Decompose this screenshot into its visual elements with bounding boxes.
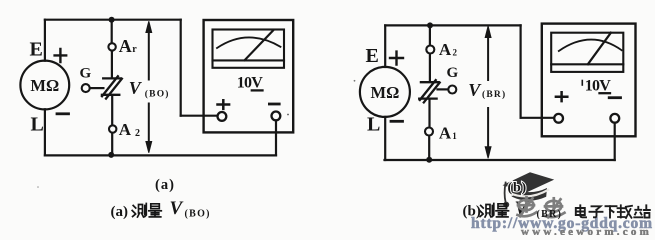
voltmeter P2 needle — [588, 33, 611, 64]
caption (b) measure V(BR) — [463, 198, 529, 220]
wire left vertical lower (L to bottom rail) — [44, 109, 46, 155]
svg-text:E: E — [30, 39, 43, 61]
svg-text:(BO): (BO) — [185, 208, 211, 219]
terminal − (voltmeter) — [272, 112, 281, 121]
svg-text:A: A — [119, 36, 132, 56]
voltmeter P2 scale face — [551, 33, 623, 72]
wire DUT branch segment 4 — [111, 134, 113, 155]
wire to voltmeter plus terminal — [181, 115, 218, 117]
svg-text:1: 1 — [452, 131, 457, 141]
svg-text:E: E — [366, 45, 379, 67]
megohmmeter M2 — [360, 67, 410, 117]
label A2 (B) — [439, 40, 458, 59]
wire from voltmeter minus terminal — [275, 120, 277, 155]
watermark bug hanzi 1 — [518, 197, 537, 216]
label − (voltmeter terminal) — [269, 103, 279, 106]
svg-text:2: 2 — [453, 47, 458, 57]
caption (a) — [155, 177, 175, 193]
caption hanzi liang (amount, b) — [496, 204, 509, 217]
terminal + (voltmeter) — [218, 112, 227, 121]
watermark site name hanzi zhan — [634, 205, 650, 217]
svg-text:r: r — [132, 44, 137, 55]
label A2 — [119, 120, 140, 139]
label E (megohmmeter terminal) — [30, 39, 43, 61]
node junction top (DUT branch) — [109, 17, 115, 23]
svg-text:(BR): (BR) — [482, 89, 506, 100]
terminal node A2 (bottom) — [109, 125, 116, 132]
wire to voltmeter plus terminal (B) — [521, 117, 555, 119]
voltmeter P1 case — [204, 20, 294, 132]
label − (voltmeter P2 terminal) — [609, 96, 620, 99]
value label 10V (P2) — [582, 77, 611, 94]
svg-text:(BR): (BR) — [537, 209, 563, 220]
value label V(BO) — [129, 78, 170, 99]
svg-text:V: V — [468, 80, 482, 100]
wire left vertical upper (B) — [384, 25, 386, 67]
voltmeter P2 case — [542, 24, 636, 137]
node junction bottom (B) — [426, 157, 432, 163]
svg-text:G: G — [80, 66, 92, 82]
label L (megohmmeter terminal) — [31, 114, 44, 136]
svg-text:10V: 10V — [237, 74, 263, 91]
voltmeter P1 scale arc — [217, 37, 281, 48]
wire DUT branch segment 2 — [111, 51, 113, 77]
svg-text:MΩ: MΩ — [371, 83, 400, 102]
value label 10V — [237, 74, 263, 91]
label A1 (B) — [439, 124, 457, 143]
wire left vertical lower (B) — [384, 117, 386, 160]
label + (voltmeter terminal) — [218, 100, 230, 109]
voltmeter P2 scale arc — [559, 40, 622, 51]
label − (megohmmeter polarity) — [57, 112, 69, 115]
wire right vertical — [180, 20, 182, 116]
label + (megohmmeter polarity) — [55, 49, 67, 62]
wire DUT branch segment 1 — [111, 20, 113, 43]
wire bottom rail — [45, 154, 276, 156]
svg-text:V: V — [129, 78, 143, 98]
svg-text:G: G — [447, 65, 459, 81]
watermark url eeworm — [521, 226, 651, 238]
svg-text:MΩ: MΩ — [30, 76, 59, 95]
svg-text:(a): (a) — [155, 177, 175, 193]
svg-text:2: 2 — [135, 128, 140, 139]
caption hanzi ce (measure) — [132, 204, 146, 218]
svg-text:A: A — [119, 120, 132, 139]
terminal node A2 (top, B) — [426, 46, 434, 54]
node junction bottom (DUT branch) — [108, 152, 114, 158]
terminal node G — [82, 84, 90, 92]
terminal node G (B) — [448, 86, 456, 94]
wire DUT branch B segment 1 — [429, 25, 431, 45]
svg-text:L: L — [367, 114, 380, 136]
value label (BR) in caption b — [537, 209, 563, 220]
wire right vertical (B) — [519, 25, 521, 117]
label + (voltmeter P2 terminal) — [556, 92, 567, 101]
label A1 — [119, 36, 137, 56]
node junction top (B) — [427, 22, 433, 28]
watermark site name hanzi zi — [590, 206, 603, 217]
svg-text:10V: 10V — [585, 77, 611, 94]
svg-text:(a): (a) — [111, 204, 129, 220]
svg-text:L: L — [31, 114, 44, 136]
watermark site name hanzi dian — [576, 205, 586, 217]
voltmeter P1 needle — [245, 31, 273, 61]
measurement arrow V(BO) — [146, 21, 152, 153]
watermark url go-gddq — [471, 215, 652, 232]
caption (a) measure V(BO) — [111, 198, 211, 220]
gate wire (B) — [438, 88, 449, 90]
svg-text:(BO): (BO) — [145, 88, 170, 99]
wire DUT branch B segment 3 — [428, 100, 430, 127]
wire bottom rail (B) — [385, 159, 615, 161]
voltmeter P1 scale face — [213, 30, 285, 68]
value label V(BR) — [468, 80, 506, 100]
wire left vertical upper (E to top rail) — [44, 20, 46, 61]
wire top rail — [45, 19, 181, 21]
megohmmeter M1 — [20, 61, 69, 110]
terminal node A1 (bottom, B) — [425, 128, 433, 136]
label G — [80, 66, 92, 82]
label + (megohmmeter M2 polarity) — [390, 52, 403, 65]
label − (megohmmeter M2 polarity) — [391, 120, 403, 123]
wire top rail (B) — [385, 24, 520, 26]
wire DUT branch B segment 4 — [428, 136, 430, 160]
caption hanzi liang (amount) — [149, 204, 162, 217]
watermark site name hanzi zai — [618, 205, 633, 218]
caption (b) — [508, 180, 528, 195]
svg-text:(b): (b) — [508, 180, 528, 195]
svg-text:A: A — [439, 40, 452, 59]
watermark bug hanzi 2 — [545, 198, 565, 217]
wire from voltmeter minus terminal (B) — [614, 123, 616, 160]
wire DUT branch B segment 2 — [429, 54, 431, 81]
label L (megohmmeter M2 terminal) — [367, 114, 380, 136]
label E (megohmmeter M2 terminal) — [366, 45, 379, 67]
watermark site name hanzi xia — [606, 206, 617, 217]
terminal node A1 (top) — [108, 43, 115, 50]
terminal − (voltmeter P2) — [610, 114, 619, 123]
terminal + (voltmeter P2) — [554, 114, 563, 123]
svg-text:www.eeworm.com: www.eeworm.com — [521, 226, 651, 235]
svg-text:V: V — [170, 198, 184, 219]
measurement arrow V(BR) — [485, 26, 491, 158]
wire DUT branch segment 3 — [111, 96, 113, 125]
svg-text:A: A — [439, 124, 452, 143]
label G (B) — [447, 65, 459, 81]
speck artifacts — [37, 80, 355, 188]
caption hanzi ce (measure, b) — [480, 204, 494, 218]
gate wire — [90, 87, 103, 89]
DIAC V2 symbol — [419, 80, 440, 102]
DIAC V1 symbol — [102, 76, 122, 98]
watermark graduation cap logo — [503, 172, 555, 207]
